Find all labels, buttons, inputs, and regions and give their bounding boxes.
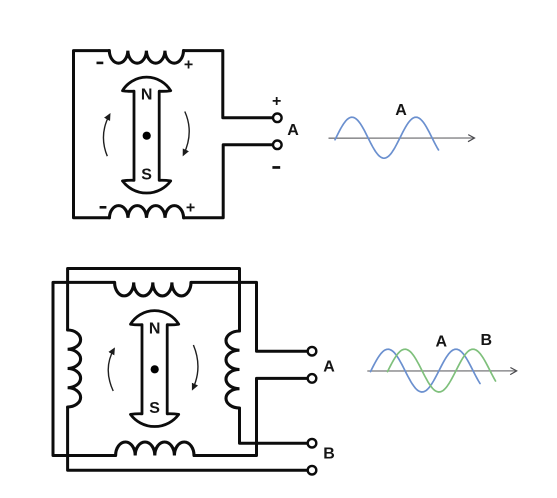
wire: right coil bottom to terminal B+ [240,408,308,443]
rotation arrow left (diagram 1) [103,115,109,156]
waveform axis (diagram 2 output) [367,370,516,372]
svg-text:A: A [436,333,448,350]
svg-text:N: N [149,320,161,337]
coil L1 (top stator winding, diagram 1) [109,51,183,64]
waveform axis arrowhead (diagram 1) [468,135,475,142]
svg-text:B: B [481,332,493,349]
coil L4 (right stator winding, phase B) [226,331,240,408]
svg-text:A: A [395,102,407,119]
label - (L2 left polarity) [100,206,107,209]
wire: phase A loop left (top coil left end, down left side, to bottom coil left end) [53,282,116,455]
rotor shaft dot [143,132,151,140]
rotor magnet (diagram 2) [131,311,179,427]
rotation arrow left (diagram 2) [108,349,114,391]
terminal B- (diagram 2) [308,466,317,475]
coil L6 (bottom stator winding, phase A) [116,442,194,456]
waveform axis arrowhead (diagram 2) [510,368,517,375]
terminal A+ (output terminal circle) [273,114,282,123]
rotation arrow right (diagram 1) [184,112,190,155]
svg-text:+: + [186,200,195,217]
wire: stator frame left side (top coil left end to bottom coil left end) [74,51,110,218]
wire: left coil bottom to terminal B- [68,407,308,470]
coil L3 (left stator winding, phase B) [68,330,81,407]
svg-text:B: B [323,445,335,462]
rotor shaft dot (diagram 2) [151,365,159,373]
wire: terminal A- to frame bottom-right [184,145,273,218]
svg-text:S: S [149,400,160,417]
terminal A- (output terminal circle) [273,141,282,150]
svg-text:+: + [272,93,281,110]
label - (L1 left polarity) [97,62,104,65]
phase A sine wave (diagram 2, blue) [371,349,481,392]
phase B sine wave (diagram 2, green) [388,349,496,392]
svg-text:+: + [184,57,193,74]
svg-text:S: S [141,166,152,183]
svg-text:A: A [287,122,299,139]
waveform axis (diagram 1 output) [329,137,475,139]
svg-text:A: A [323,358,335,375]
wire: bottom coil right end up to terminal A- [194,378,308,455]
wire: top coil right end to terminal A+ [191,282,308,351]
wire: frame top-right to terminal A+ [184,51,273,118]
wire: phase B loop top (left coil top, over the top, to right coil top) [68,269,240,332]
rotor magnet (diagram 1) [123,77,171,193]
coil L5 (top stator winding, phase A) [115,282,191,296]
phase A sine wave (diagram 1, blue) [335,117,439,158]
terminal A+ (diagram 2) [308,347,317,356]
svg-text:N: N [141,87,153,104]
terminal B+ (diagram 2) [308,439,317,448]
label - (terminal A-) [272,166,280,169]
coil L2 (bottom stator winding, diagram 1) [109,206,183,218]
rotation arrow right (diagram 2) [193,345,198,389]
terminal A- (diagram 2) [308,374,317,383]
